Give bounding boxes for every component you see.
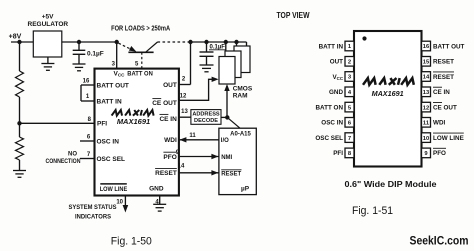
svg-text:DECODE: DECODE xyxy=(194,118,218,124)
DIP pin 1 BATT IN xyxy=(345,41,354,51)
svg-text:VCC: VCC xyxy=(114,71,126,78)
DIP pin 5 BATT ON xyxy=(345,102,354,112)
svg-text:11: 11 xyxy=(423,121,430,127)
svg-text:CE OUT: CE OUT xyxy=(433,104,457,111)
svg-text:11: 11 xyxy=(189,133,196,139)
svg-text:NMI: NMI xyxy=(221,155,232,161)
svg-text:PFI: PFI xyxy=(97,121,107,128)
transistor Q1 external PNP pass (optional) xyxy=(119,43,131,49)
pin 1 BATT IN stub xyxy=(81,100,95,102)
voltage divider resistor R1 xyxy=(19,42,21,71)
svg-text:12: 12 xyxy=(180,94,187,100)
wire address bus to uP xyxy=(227,117,240,128)
wire dashed collector to rail xyxy=(158,41,191,43)
DIP pin 4 GND xyxy=(345,87,354,97)
svg-text:BATT IN: BATT IN xyxy=(319,43,344,50)
svg-text:CE OUT: CE OUT xyxy=(152,100,177,107)
svg-text:13: 13 xyxy=(181,109,188,115)
svg-text:BATT OUT: BATT OUT xyxy=(433,43,465,50)
svg-text:2: 2 xyxy=(348,59,351,65)
DIP pin 12 CE(bar) OUT xyxy=(422,102,431,112)
svg-text:OSC IN: OSC IN xyxy=(97,138,120,145)
junction OUT riser xyxy=(188,40,192,44)
pin 6 OSC IN stub xyxy=(80,140,95,142)
DIP pin 10 LOW LINE(bar) xyxy=(422,133,431,143)
ground pin 4 xyxy=(153,203,166,205)
junction RAM supply 2 xyxy=(234,40,238,44)
pin 2 OUT wire xyxy=(179,84,191,86)
DIP pin 8 PFI xyxy=(345,148,354,158)
svg-text:13: 13 xyxy=(423,90,430,96)
svg-text:OUT: OUT xyxy=(330,59,343,66)
DIP pin 16 BATT OUT xyxy=(422,41,431,51)
svg-text:I/O: I/O xyxy=(221,138,229,144)
svg-text:CE IN: CE IN xyxy=(433,89,450,96)
svg-text:BATT IN: BATT IN xyxy=(97,98,122,105)
svg-text:RESET: RESET xyxy=(155,170,177,177)
DIP pin 15 RESET xyxy=(422,57,431,67)
svg-text:NO: NO xyxy=(68,152,77,158)
svg-text:REGULATOR: REGULATOR xyxy=(28,21,69,28)
ground C2 xyxy=(200,64,214,66)
svg-text:WDI: WDI xyxy=(164,137,177,144)
svg-text:12: 12 xyxy=(423,105,429,111)
svg-text:OSC SEL: OSC SEL xyxy=(97,156,126,163)
svg-text:10: 10 xyxy=(423,136,429,142)
junction divider tap top xyxy=(17,40,21,44)
svg-text:GND: GND xyxy=(149,186,164,193)
svg-text:MAX1691: MAX1691 xyxy=(372,89,404,98)
svg-text:BATT ON: BATT ON xyxy=(315,104,343,111)
capacitor C1 0.1uF xyxy=(78,42,80,50)
wire RAM supply 1 xyxy=(225,42,227,51)
svg-text:MAX1691: MAX1691 xyxy=(117,117,150,126)
svg-text:OSC SEL: OSC SEL xyxy=(315,135,343,142)
capacitor C2 0.1uF xyxy=(206,42,208,52)
svg-text:Fig. 1-50: Fig. 1-50 xyxy=(111,236,152,248)
svg-text:OUT: OUT xyxy=(163,82,177,89)
DIP pin 3 VCC xyxy=(345,72,354,82)
DIP MAXIM logo xyxy=(363,78,376,85)
junction C1 xyxy=(77,40,81,44)
svg-text:16: 16 xyxy=(83,79,90,85)
svg-text:10: 10 xyxy=(116,199,123,205)
svg-text:TOP VIEW: TOP VIEW xyxy=(277,10,311,20)
junction address bus xyxy=(225,115,229,119)
junction RAM supply 1 xyxy=(224,40,228,44)
svg-text:CE IN: CE IN xyxy=(159,116,177,123)
junction C2 xyxy=(204,40,208,44)
svg-text:FOR LOADS > 250mA: FOR LOADS > 250mA xyxy=(111,26,170,33)
svg-text:7: 7 xyxy=(348,136,351,142)
svg-text:16: 16 xyxy=(423,44,430,50)
svg-text:GND: GND xyxy=(329,89,343,96)
wire strap pins 16-1 xyxy=(80,85,82,101)
ground divider xyxy=(13,170,26,172)
ground C1 xyxy=(73,63,86,65)
DIP pin1 marker xyxy=(362,36,366,40)
svg-text:RAM: RAM xyxy=(233,93,248,100)
DIP pin 6 OSC IN xyxy=(345,118,354,128)
CMOS RAM stack xyxy=(234,46,250,73)
DIP pin 7 OSC SEL xyxy=(345,133,354,143)
wire rail to RAM xyxy=(191,41,247,43)
svg-text:+5V: +5V xyxy=(42,13,54,20)
DIP pin 14 RESET(bar) xyxy=(422,72,431,82)
DIP pin 2 OUT xyxy=(345,57,354,67)
wire RAM supply 2 xyxy=(236,42,238,46)
regulator U2 +5V xyxy=(33,31,62,57)
pin 7 OSC SEL stub xyxy=(80,158,95,160)
ground regulator xyxy=(47,57,49,64)
svg-text:LOW LINE: LOW LINE xyxy=(100,186,128,193)
wire PFI xyxy=(20,122,95,124)
svg-text:A0-A15: A0-A15 xyxy=(230,132,251,138)
uP box xyxy=(219,128,256,194)
svg-text:INDICATORS: INDICATORS xyxy=(75,214,112,221)
junction Q1 emitter tap xyxy=(115,40,119,44)
svg-text:PFI: PFI xyxy=(333,150,343,157)
wire decode to address bus xyxy=(221,116,227,118)
svg-text:14: 14 xyxy=(178,163,185,169)
svg-text:14: 14 xyxy=(423,75,430,81)
svg-text:SYSTEM STATUS: SYSTEM STATUS xyxy=(69,204,118,211)
pin 13 CE IN wire xyxy=(179,116,191,118)
svg-text:RESET: RESET xyxy=(433,59,454,66)
wire +8V rail xyxy=(11,41,33,43)
svg-text:RESET: RESET xyxy=(433,74,454,81)
svg-text:0.6" Wide DIP Module: 0.6" Wide DIP Module xyxy=(345,180,438,189)
svg-text:OSC IN: OSC IN xyxy=(321,120,343,127)
pin 5 BATT ON dashed wire xyxy=(141,52,143,68)
pin 3 Vcc wire xyxy=(116,42,118,69)
svg-text:BATT OUT: BATT OUT xyxy=(97,82,129,89)
svg-text:CONNECTION: CONNECTION xyxy=(46,159,81,165)
pin 14 RESET wire xyxy=(179,172,219,174)
pin 16 BATT OUT stub xyxy=(81,84,95,86)
pin 12 CE OUT wire to RAM xyxy=(179,79,212,100)
svg-text:WDI: WDI xyxy=(433,120,445,127)
svg-text:VCC: VCC xyxy=(332,74,343,81)
pin 4 GND stub xyxy=(159,196,161,205)
wire regulator output xyxy=(62,41,117,43)
op IC U1 MAX1691 body xyxy=(95,69,179,196)
address decode box xyxy=(191,110,221,125)
svg-text:RESET: RESET xyxy=(221,171,241,177)
svg-text:LOW LINE: LOW LINE xyxy=(433,135,464,142)
svg-text:PFO: PFO xyxy=(163,154,176,161)
svg-text:µP: µP xyxy=(241,185,250,192)
DIP pin 13 CE(bar) IN xyxy=(422,87,431,97)
svg-text:Fig. 1-51: Fig. 1-51 xyxy=(352,205,393,217)
pin 11 WDI wire xyxy=(179,139,219,141)
svg-text:+8V: +8V xyxy=(9,34,22,41)
DIP pin 9 PFO(bar) xyxy=(422,148,431,158)
pin 10 status output arrow xyxy=(124,196,126,207)
DIP U3 body xyxy=(354,31,422,167)
pin 9 PFO wire xyxy=(179,156,219,158)
wire address bus to RAM xyxy=(226,89,228,117)
svg-text:ADDRESS: ADDRESS xyxy=(192,111,220,117)
DIP pin 11 WDI xyxy=(422,118,431,128)
svg-text:0.1µF: 0.1µF xyxy=(87,51,104,58)
U1 MAXIM logo xyxy=(112,110,122,116)
junction PFI tap xyxy=(17,121,21,125)
svg-text:15: 15 xyxy=(423,59,430,65)
voltage divider resistor R2 xyxy=(19,123,21,137)
svg-text:SeekIC.com: SeekIC.com xyxy=(410,236,469,248)
svg-text:PFO: PFO xyxy=(433,150,446,157)
svg-text:CMOS: CMOS xyxy=(233,86,253,93)
svg-text:BATT ON: BATT ON xyxy=(127,71,153,78)
